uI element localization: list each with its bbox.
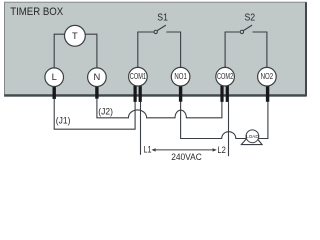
svg-text:NO1: NO1 <box>174 72 187 81</box>
terminal stub NO2 <box>266 85 269 102</box>
terminal stub COM2 right <box>226 84 229 102</box>
wire NO2 to LOAD <box>259 102 268 139</box>
terminal COM1 <box>129 67 148 86</box>
wire N to T <box>85 34 97 68</box>
svg-text:COM1: COM1 <box>130 72 147 81</box>
svg-text:LOAD: LOAD <box>246 134 259 139</box>
jumper wire J2 from N to COM2 with hops <box>97 98 222 118</box>
svg-text:(J1): (J1) <box>56 116 71 126</box>
svg-text:NO2: NO2 <box>261 72 274 81</box>
svg-text:L: L <box>52 71 57 82</box>
terminal L <box>45 68 64 87</box>
svg-text:S1: S1 <box>157 13 168 24</box>
240VAC dimension arrow <box>151 148 216 151</box>
terminal stub N <box>95 85 98 99</box>
svg-text:N: N <box>94 71 101 82</box>
svg-text:TIMER BOX: TIMER BOX <box>10 6 63 18</box>
terminal NO2 <box>258 67 277 86</box>
svg-text:COM2: COM2 <box>217 72 234 81</box>
timer motor T <box>65 25 86 46</box>
wire NO1 to LOAD with hop over L2 <box>181 102 246 139</box>
terminal stub COM1 right <box>139 84 142 102</box>
terminal stub COM1 left <box>134 84 137 102</box>
wire COM2 to L2 <box>228 102 230 157</box>
timer box enclosure <box>4 2 306 96</box>
svg-text:T: T <box>72 31 78 41</box>
svg-text:(J2): (J2) <box>98 106 113 116</box>
svg-text:L1: L1 <box>144 145 152 155</box>
terminal COM2 <box>216 67 235 86</box>
terminal stub COM2 left <box>220 84 223 102</box>
switch S2 wires and symbol <box>225 25 267 68</box>
terminal stub L <box>53 85 56 99</box>
svg-text:L2: L2 <box>217 145 225 155</box>
svg-text:240VAC: 240VAC <box>171 152 202 162</box>
wire L to T <box>54 34 65 68</box>
terminal stub NO1 <box>179 85 182 102</box>
switch S1 wires and symbol <box>138 25 181 68</box>
wire COM1 to L1 <box>140 102 142 155</box>
svg-text:S2: S2 <box>245 13 256 24</box>
terminal NO1 <box>171 67 190 86</box>
jumper wire J1 from L to COM1 <box>54 99 135 130</box>
load symbol <box>241 130 262 145</box>
terminal N <box>88 68 107 87</box>
